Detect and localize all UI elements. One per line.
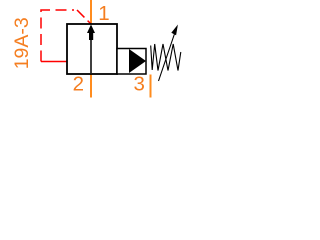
svg-text:19A-3: 19A-3 xyxy=(11,17,33,69)
svg-text:1: 1 xyxy=(98,2,109,25)
svg-text:3: 3 xyxy=(134,72,145,95)
svg-text:2: 2 xyxy=(73,72,84,95)
